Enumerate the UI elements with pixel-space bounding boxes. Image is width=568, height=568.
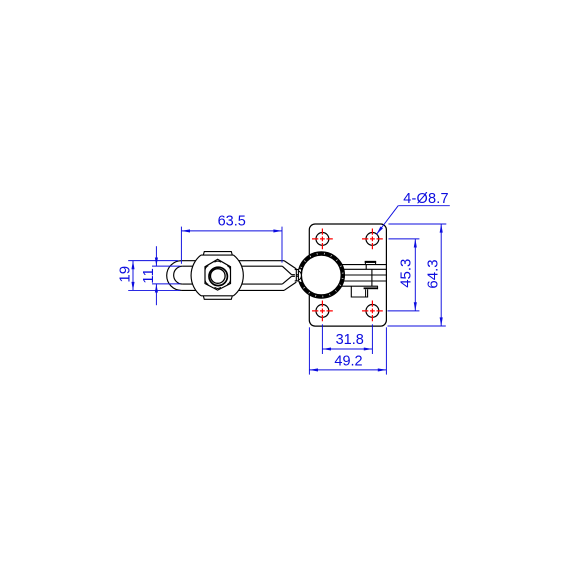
dimension 19 extension lines xyxy=(128,261,180,291)
dimension 63.5 line xyxy=(181,230,282,232)
svg-text:64.3: 64.3 xyxy=(424,259,441,288)
leader 4-dia8.7 lines xyxy=(377,206,450,235)
dimension 19 line xyxy=(132,261,134,291)
svg-text:4-Ø8.7: 4-Ø8.7 xyxy=(403,191,449,207)
latch plate thick edge xyxy=(364,287,378,289)
svg-text:31.8: 31.8 xyxy=(336,332,364,348)
mounting plate rounded rectangle xyxy=(309,224,386,326)
pivot boss circle (white fill) xyxy=(298,252,345,299)
dimension 49.2 extension lines xyxy=(309,327,386,374)
clamp bar horizontal lines xyxy=(341,265,387,287)
hex nut corner chamfer arcs xyxy=(205,266,230,285)
dimension 63.5 extension lines xyxy=(181,227,282,264)
hole bottom-left xyxy=(316,305,329,318)
washer flange circle (white fill occludes arm) xyxy=(191,249,243,301)
pivot boss outer edge xyxy=(298,252,344,298)
center mark bottom-left xyxy=(312,301,333,322)
dimension 31.8 line xyxy=(322,348,372,350)
hole top-right xyxy=(366,233,379,246)
dimension 64.3 extension lines xyxy=(388,224,447,326)
hole top-left xyxy=(316,233,329,246)
pivot boss inner edge xyxy=(301,255,341,295)
hex nut xyxy=(205,259,231,290)
top tab clip xyxy=(365,262,375,265)
threaded hole inner circle xyxy=(211,269,226,284)
clamp arm outer outline (left bar with rounded cap) xyxy=(167,261,297,291)
center mark bottom-right xyxy=(362,301,383,322)
center mark top-right xyxy=(362,229,383,250)
svg-text:45.3: 45.3 xyxy=(397,259,414,288)
washer bottom plateau xyxy=(203,296,232,299)
svg-text:11: 11 xyxy=(140,268,157,284)
svg-text:49.2: 49.2 xyxy=(334,354,362,370)
dimension 45.3 extension lines xyxy=(388,239,420,311)
hex nut chamfer arc top xyxy=(215,261,221,262)
pivot boss ring notches xyxy=(297,251,346,300)
dimension 49.2 line xyxy=(309,369,386,371)
pivot boss thick ring xyxy=(300,254,343,297)
washer top plateau xyxy=(203,252,232,255)
clamp bar verticals xyxy=(366,265,372,287)
latch step line xyxy=(377,286,379,289)
hole bottom-right xyxy=(366,305,379,318)
svg-text:19: 19 xyxy=(116,266,133,283)
dimension 64.3 line xyxy=(440,224,442,326)
svg-text:63.5: 63.5 xyxy=(218,214,246,230)
dimension 11 extension lines xyxy=(152,266,180,284)
pivot pin block at arm tip (white fill occludes ring tangent) xyxy=(295,269,301,281)
dimension 11 line with outside arrows xyxy=(155,246,157,305)
dimension 31.8 extension lines xyxy=(322,324,372,354)
hex nut chamfer arc bottom xyxy=(215,287,221,288)
clamp arm slot (U shape) xyxy=(174,266,297,284)
center mark top-left xyxy=(312,229,333,250)
threaded hole thick circle xyxy=(209,267,227,285)
bottom latch bracket xyxy=(351,286,367,297)
dimension 45.3 line xyxy=(414,239,416,311)
